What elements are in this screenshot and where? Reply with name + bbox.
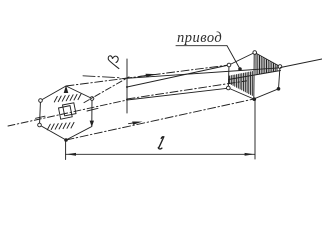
joint vertical line bbox=[126, 59, 128, 113]
dim arrow right bbox=[245, 153, 255, 156]
centerline D1 axis through nut bbox=[8, 100, 127, 126]
arrow up at apex bbox=[64, 85, 69, 93]
prism node dot R2 bbox=[277, 87, 281, 91]
svg-text:привод: привод bbox=[177, 30, 222, 46]
node dot B1 bbox=[64, 138, 68, 142]
arrow down on right edge bbox=[90, 121, 94, 127]
extension line right bbox=[254, 100, 256, 159]
cube back face bbox=[63, 103, 77, 116]
prism equator edge bbox=[229, 71, 281, 80]
dim arrow left bbox=[66, 153, 76, 156]
node circle LL bbox=[38, 123, 42, 127]
shaft top line S1 bbox=[127, 65, 229, 87]
joint dot S1 bbox=[126, 86, 128, 88]
label beta bbox=[106, 54, 122, 69]
tick on nut right edge bbox=[87, 108, 98, 111]
centerline D3 apex to drive bbox=[66, 65, 229, 86]
hexagon nut outline bbox=[40, 86, 93, 140]
thread hatch above cube bbox=[54, 94, 81, 102]
shaft bottom line S2 bbox=[127, 88, 228, 100]
prism node circle T2 bbox=[253, 51, 257, 55]
prism mid vertical edge top bbox=[253, 55, 255, 80]
direction arrow upper bbox=[139, 75, 151, 77]
prism hatch left face bbox=[230, 72, 253, 96]
label L bbox=[158, 137, 164, 149]
centerline beta reference bbox=[83, 76, 121, 78]
leader line bbox=[227, 46, 240, 69]
dimension line L bbox=[66, 153, 255, 155]
node circle UR bbox=[90, 97, 94, 101]
leader dot bbox=[238, 67, 242, 71]
prism node circle L1 bbox=[227, 63, 231, 67]
tick on nut left edge bbox=[36, 116, 46, 118]
leader shelf for privod bbox=[176, 45, 227, 47]
drive prism outline bbox=[228, 53, 280, 100]
cube front face bbox=[59, 106, 73, 120]
joint tick bbox=[122, 78, 132, 79]
node circle UL bbox=[39, 99, 43, 103]
prism mid vertical edge bottom bbox=[253, 79, 255, 99]
prism node circle L2 bbox=[227, 86, 231, 90]
extension line left bbox=[65, 142, 67, 160]
prism node dot B2 bbox=[253, 97, 257, 101]
centerline D5 nut bottom to drive bottom bbox=[66, 99, 254, 140]
direction arrow lower bbox=[129, 122, 138, 123]
prism node circle R1 bbox=[278, 65, 282, 69]
joint dot S2 bbox=[126, 99, 128, 101]
prism hatch right face bbox=[256, 54, 277, 75]
centerline D2 joint to drive bbox=[127, 81, 247, 99]
shaft mid line S3 bbox=[127, 68, 280, 79]
output line to right edge bbox=[281, 59, 322, 68]
thread hatch below cube bbox=[47, 122, 74, 129]
centerline D4 nut center to joint bbox=[84, 77, 129, 103]
